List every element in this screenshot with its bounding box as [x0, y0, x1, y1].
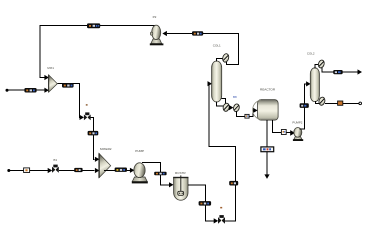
wire feed F1 to MIX1 [7, 89, 45, 91]
arrow into MIX2 bottom inlet [95, 168, 100, 173]
wire exchanger B8 to drum FLASH [237, 110, 254, 116]
svg-text:RCSTR: RCSTR [175, 171, 186, 175]
arrow into drum FLASH [253, 108, 258, 113]
svg-text:REACTOR: REACTOR [260, 87, 276, 91]
arrow into pump P2 [162, 31, 167, 36]
column C2 body [310, 68, 319, 102]
wire reboiler E4 to bottoms product B2 [325, 102, 359, 104]
stream label small S9 [281, 130, 286, 135]
arrow into pump P1 [130, 168, 135, 173]
arrow into column C2 feed [306, 81, 311, 86]
exchanger B8 [233, 103, 240, 112]
stream label B2 orange [338, 101, 343, 105]
stream label S7 on riser [229, 181, 238, 186]
arrow into MIX1 bottom inlet [44, 88, 49, 93]
arrow product D2 end [358, 69, 363, 74]
pump P3 [293, 128, 303, 141]
wire column C1 top to condenser E1 [217, 58, 223, 61]
node feed F1 source dot [6, 89, 9, 92]
stream label S6 on reactor outlet [199, 201, 212, 206]
svg-text:COL1: COL1 [213, 43, 221, 47]
stream label F1 [24, 88, 36, 93]
mixer MIX2 [98, 153, 110, 177]
condenser E1 [222, 53, 230, 63]
stream label S4 on MIX2 outlet [115, 168, 127, 172]
valve V2 [218, 215, 225, 224]
wire valve V2 outlet up and into column C1 feed [208, 84, 236, 221]
wire valve V1 to MIX2 top inlet [91, 117, 95, 159]
stream label RECYCLE on top line [87, 23, 100, 28]
wire column C2 bottom to reboiler E4 [315, 101, 318, 104]
stream label D1 on distillate line [192, 31, 203, 35]
wire feed F2 to valve V3 [9, 170, 48, 172]
svg-text:COL2: COL2 [307, 52, 315, 56]
stream label W1 white box [261, 147, 274, 152]
arrow into valve V2 [214, 218, 219, 223]
wire column C1 bottom tip down to reboiler E2 [217, 102, 223, 106]
wire column C2 top to condenser E3 [315, 65, 319, 69]
stream label F2 small box [24, 168, 30, 173]
wire reactor outlet to valve V2 [188, 185, 214, 221]
mixer MIX1 [48, 75, 57, 92]
svg-text:PUMP: PUMP [135, 149, 144, 153]
stream label S1 on MIX1 outlet [62, 83, 74, 88]
svg-text:B8: B8 [233, 95, 237, 99]
wire pump P1 outlet to reactor RCSTR [142, 162, 169, 184]
stream label D2 [333, 70, 343, 74]
svg-text:P2: P2 [153, 15, 157, 19]
arrow into reactor RCSTR [169, 182, 174, 187]
label dot V1 [86, 104, 88, 105]
arrow into MIX2 top inlet [95, 157, 100, 162]
arrow into valve V3 [48, 168, 53, 173]
wire drum vapor to pump P3 [273, 120, 291, 132]
stream label small S8 [245, 114, 249, 118]
node product B2 end [359, 102, 362, 105]
reboiler E4 [318, 97, 326, 106]
arrow into MIX1 top inlet [44, 75, 49, 80]
stream label S3 after valve V3 [74, 168, 82, 172]
wire pump P3 outlet to column C2 feed [300, 84, 307, 129]
node feed F2 source dot [7, 169, 10, 172]
valve V1 [84, 112, 91, 120]
stream label S10 on P3 outlet [300, 103, 309, 108]
arrow into valve V1 [80, 115, 85, 120]
arrow into column C1 feed [208, 81, 213, 86]
svg-text:B3: B3 [53, 158, 57, 162]
arrow end of bottoms product pointing down [264, 174, 269, 179]
drum FLASH vessel [253, 100, 278, 121]
wire valve V3 to MIX2 bottom inlet [59, 170, 95, 172]
wire condenser E1 to pump P2 (distillate recycle) [167, 33, 238, 64]
stream label S5 on P1 outlet [154, 172, 166, 175]
stream label S2 below valve V1 [88, 131, 99, 136]
arrow into pump P3 [290, 130, 295, 136]
reactor RCSTR vessel [173, 175, 188, 200]
svg-text:MIX1: MIX1 [47, 66, 54, 70]
wire column C1 bottoms to reboiler E2 [222, 99, 226, 104]
column C1 body [212, 61, 222, 102]
svg-text:PUMP2: PUMP2 [292, 120, 302, 124]
wire MIX2 outlet to pump P1 [104, 170, 130, 172]
condenser E3 [318, 59, 326, 68]
pump P1 [132, 163, 148, 184]
pump P2 [150, 25, 164, 45]
reboiler E2 [222, 103, 230, 112]
arrow from reboiler E2 to exchanger B8 [229, 105, 234, 110]
wire condenser E3 to distillate product D2 [322, 68, 357, 72]
wire MIX1 outlet to valve V1 [57, 84, 80, 118]
valve V3 [52, 165, 59, 173]
wire recycle line from pump P2 top to mixer MIX1 top inlet [40, 26, 157, 78]
svg-text:MIXER2: MIXER2 [100, 147, 112, 151]
label dot V2 [220, 207, 222, 209]
wire drum bottoms product downward [266, 120, 268, 175]
